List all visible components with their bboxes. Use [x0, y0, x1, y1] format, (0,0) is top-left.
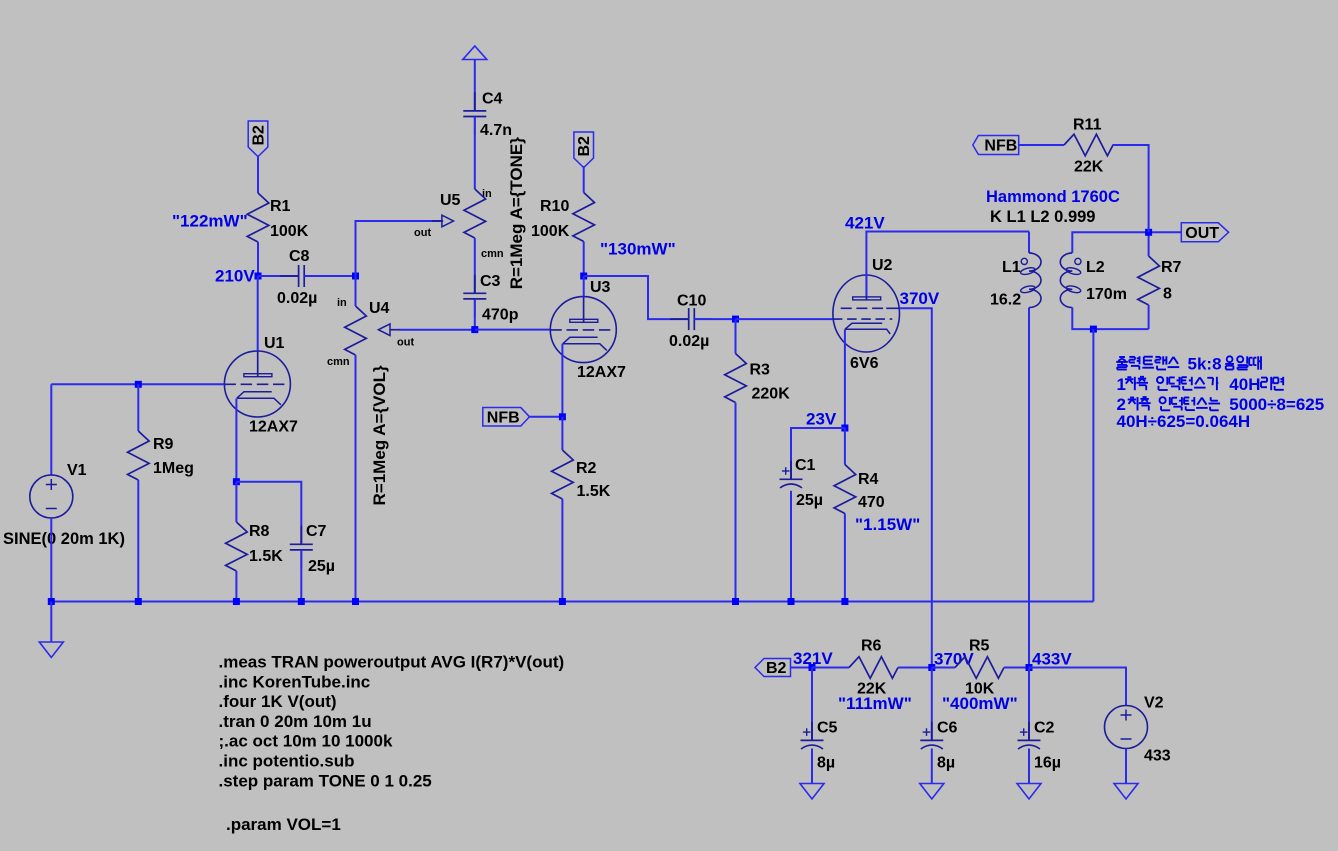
wiper arrow of U4 — [378, 324, 400, 336]
wire secondary bottom to ground rail — [1092, 329, 1094, 601]
node U3 cathode junction — [559, 413, 566, 420]
node 210V junction — [255, 273, 262, 280]
svg-text:1: 1 — [1117, 375, 1126, 394]
node rail junction C7 — [298, 598, 305, 605]
Korean glyph il (line 1) — [1237, 356, 1247, 369]
Korean glyph cheuk (line 3) — [1139, 397, 1151, 410]
wire C3 to grid node — [474, 299, 476, 330]
svg-text:R7: R7 — [1161, 259, 1182, 276]
node rail junction R4 — [841, 598, 848, 605]
resistor R9 — [128, 384, 150, 601]
svg-text:out: out — [397, 337, 414, 349]
Korean glyph seu (line 1) — [1168, 357, 1180, 367]
node 23V junction — [841, 425, 848, 432]
svg-text:470p: 470p — [482, 307, 519, 324]
svg-text:U3: U3 — [590, 279, 611, 296]
Korean glyph seu (line 2) — [1194, 377, 1206, 387]
capacitor C5 (polarized) — [801, 668, 824, 750]
svg-text:OUT: OUT — [1185, 225, 1219, 242]
svg-text:100K: 100K — [270, 223, 309, 240]
wire ground to C4 — [474, 60, 476, 111]
capacitor C7 — [290, 526, 313, 569]
Korean glyph ra (line 2) — [1261, 377, 1273, 390]
svg-text:B2: B2 — [576, 136, 593, 157]
wire C5 to ground — [811, 749, 813, 784]
svg-text:C10: C10 — [677, 293, 706, 310]
wire U4 node up to U5 wiper — [356, 221, 444, 276]
svg-text:25µ: 25µ — [308, 558, 335, 575]
capacitor C3 — [463, 275, 486, 318]
Korean glyph chul (line 1) — [1116, 357, 1128, 370]
svg-text:.tran 0 20m 10m 1u: .tran 0 20m 10m 1u — [219, 712, 372, 731]
svg-text:40H÷625=0.064H: 40H÷625=0.064H — [1117, 412, 1251, 431]
resistor R3 — [725, 319, 747, 601]
Korean glyph neun (line 3) — [1209, 397, 1221, 410]
wire C1 to rail — [790, 491, 792, 602]
wire U1 grid row — [51, 383, 224, 385]
wire B2 flag to R10 — [583, 166, 585, 193]
svg-text:8µ: 8µ — [817, 755, 835, 772]
svg-text:210V: 210V — [215, 267, 255, 286]
voltage source V1 — [30, 475, 73, 518]
wire NFB flag to cathode node — [530, 416, 563, 418]
svg-text:"111mW": "111mW" — [838, 694, 912, 713]
net flag NFB (at R2) — [483, 408, 530, 427]
wire B2 flag to R1 — [257, 156, 259, 193]
Korean glyph om (line 1) — [1225, 356, 1234, 369]
svg-text:R1: R1 — [270, 198, 291, 215]
Korean glyph teon (line 2) — [1182, 377, 1193, 390]
node U4-in junction — [352, 273, 359, 280]
wire L2 bottom to R7 — [1072, 308, 1148, 330]
node secondary-bottom junction — [1090, 326, 1097, 333]
node C10/R3 junction — [732, 316, 739, 323]
triode U3 12AX7 — [550, 297, 616, 363]
ground (C6) — [920, 784, 944, 800]
wire ground rail — [51, 601, 1093, 603]
svg-text:K L1 L2 0.999: K L1 L2 0.999 — [990, 208, 1095, 226]
node C3/U3-grid junction — [471, 326, 478, 333]
svg-text:in: in — [337, 297, 347, 309]
Korean glyph seu (line 3) — [1196, 398, 1208, 408]
node rail junction C1 — [788, 598, 795, 605]
resistor R5 — [932, 657, 1029, 679]
voltage source V2 — [1105, 706, 1148, 749]
Korean glyph deok (line 2) — [1169, 377, 1179, 390]
ground (above C4) — [463, 46, 487, 60]
svg-text:C7: C7 — [306, 523, 327, 540]
node U3 anode junction — [580, 273, 587, 280]
svg-text:.step param TONE 0 1 0.25: .step param TONE 0 1 0.25 — [219, 771, 432, 790]
wire U1 cathode down — [235, 399, 237, 482]
svg-text:100K: 100K — [531, 223, 570, 240]
svg-text:U2: U2 — [872, 257, 893, 274]
Korean glyph ttae (line 1) — [1249, 356, 1261, 369]
svg-text:8: 8 — [1163, 286, 1172, 303]
svg-text:C5: C5 — [817, 720, 838, 737]
wire U4 wiper to C3 node — [399, 329, 475, 331]
svg-text:22K: 22K — [1074, 159, 1104, 176]
wire anode node to C10 — [584, 276, 689, 319]
svg-text:R=1Meg A={TONE}: R=1Meg A={TONE} — [507, 137, 526, 289]
svg-text:470: 470 — [858, 494, 885, 511]
wire C4 to U5 — [474, 117, 476, 190]
capacitor C1 (polarized) — [780, 461, 803, 488]
net flag B2 (R10 supply) — [574, 132, 594, 168]
svg-text:4.7n: 4.7n — [480, 122, 512, 139]
svg-text:B2: B2 — [766, 660, 787, 677]
potentiometer U5 body — [464, 189, 486, 238]
svg-text:40H: 40H — [1229, 375, 1260, 394]
node rail junction U4 — [352, 598, 359, 605]
svg-text:C8: C8 — [289, 248, 310, 265]
wire 433V node to V2 — [1029, 668, 1126, 706]
svg-text:V2: V2 — [1144, 695, 1164, 712]
node 433V junction — [1026, 664, 1033, 671]
ground (V2) — [1114, 784, 1138, 800]
wire 421V corner to L1 — [1028, 232, 1030, 253]
svg-text:.four 1K V(out): .four 1K V(out) — [219, 692, 337, 711]
net flag OUT — [1181, 223, 1228, 242]
ground (C5) — [800, 784, 824, 800]
wire U4 node to U4 top — [355, 276, 357, 306]
capacitor C10 — [670, 308, 713, 330]
resistor R7 — [1138, 232, 1160, 329]
Korean glyph in (line 3) — [1160, 397, 1171, 410]
inductor L1 — [1020, 253, 1041, 308]
net flag B2 (R1 supply) — [248, 121, 268, 157]
resistor R6 — [812, 657, 898, 679]
wire C2 to ground — [1028, 749, 1030, 784]
wire U3 anode lead — [583, 276, 585, 297]
svg-text:"400mW": "400mW" — [942, 694, 1018, 713]
resistor R11 — [1019, 134, 1113, 156]
ground (C2) — [1017, 784, 1041, 800]
resistor R2 — [552, 417, 574, 602]
wiper arrow of U5 — [432, 215, 454, 227]
Korean glyph cha (line 2) — [1125, 377, 1136, 390]
node rail junction R2 — [559, 598, 566, 605]
wire B2 flag to 321V node — [791, 667, 813, 669]
svg-text:23V: 23V — [806, 410, 837, 429]
inductor L2 — [1060, 253, 1081, 308]
node OUT junction — [1145, 229, 1152, 236]
resistor R4 — [834, 428, 856, 602]
svg-text:NFB: NFB — [487, 409, 520, 426]
phase dot of L1 — [1021, 258, 1027, 264]
capacitor C4 — [463, 92, 486, 135]
svg-text:U5: U5 — [440, 192, 461, 209]
wire U2 anode to transformer — [866, 232, 1029, 297]
potentiometer U4 body — [345, 306, 367, 355]
wire R3 node to U2 grid — [736, 318, 833, 320]
node R9/grid junction — [135, 381, 142, 388]
wire 210V node to C8 — [258, 275, 299, 277]
node rail junction V1 — [48, 598, 55, 605]
svg-text:"130mW": "130mW" — [600, 240, 676, 259]
node U1 cathode junction — [233, 478, 240, 485]
svg-text:L1: L1 — [1002, 259, 1021, 276]
wire L2 top to OUT row — [1072, 232, 1181, 253]
svg-text:170m: 170m — [1086, 286, 1127, 303]
svg-text:12AX7: 12AX7 — [577, 364, 626, 381]
svg-text:V1: V1 — [67, 462, 87, 479]
svg-text:R3: R3 — [750, 362, 771, 379]
svg-text:0.02µ: 0.02µ — [277, 290, 317, 307]
svg-text:.inc potentio.sub: .inc potentio.sub — [219, 752, 355, 771]
net flag B2 (supply) — [755, 659, 791, 677]
Korean glyph myeon (line 2) — [1273, 377, 1284, 390]
wire V1 top to grid row — [50, 384, 52, 475]
svg-text:16µ: 16µ — [1034, 755, 1061, 772]
svg-text:U4: U4 — [369, 300, 390, 317]
Korean glyph raen (line 1) — [1155, 356, 1166, 369]
Korean glyph in (line 2) — [1157, 377, 1168, 390]
svg-text:8µ: 8µ — [937, 755, 955, 772]
wire U2 screen to 370V drop — [900, 308, 932, 667]
wire U5 to C3 — [474, 238, 476, 293]
svg-text:C1: C1 — [795, 457, 816, 474]
svg-text:R6: R6 — [861, 638, 882, 655]
svg-text:0.02µ: 0.02µ — [669, 333, 709, 350]
svg-text:U1: U1 — [264, 335, 285, 352]
node rail junction R8 — [233, 598, 240, 605]
capacitor C2 (polarized) — [1018, 668, 1041, 750]
svg-text:cmn: cmn — [481, 248, 504, 260]
svg-text:cmn: cmn — [327, 356, 350, 368]
Korean glyph ga (line 2) — [1207, 377, 1218, 390]
svg-text:1Meg: 1Meg — [153, 460, 194, 477]
wire R6 to 370V node — [898, 667, 932, 669]
svg-text:Hammond 1760C: Hammond 1760C — [986, 188, 1120, 206]
svg-text:B2: B2 — [250, 125, 267, 146]
wire C8 to U4 top node — [304, 275, 355, 277]
capacitor C6 (polarized) — [920, 668, 943, 750]
wire 23V node to C1 — [791, 428, 845, 479]
wire U1 anode to 210V node — [257, 276, 259, 351]
svg-text:;.ac oct 10m 10 1000k: ;.ac oct 10m 10 1000k — [219, 732, 393, 751]
svg-text:R11: R11 — [1073, 117, 1102, 134]
svg-text:1.5K: 1.5K — [577, 483, 611, 500]
Korean glyph cha (line 3) — [1128, 397, 1139, 410]
wire U2 cathode down to 23V — [844, 330, 846, 429]
node 370V junction — [928, 664, 935, 671]
svg-text:12AX7: 12AX7 — [249, 419, 298, 436]
svg-text:L2: L2 — [1086, 259, 1105, 276]
wire C6 to ground — [931, 749, 933, 784]
pentode U2 6V6 — [833, 275, 900, 352]
wire V1 bottom to rail — [50, 518, 52, 602]
Korean glyph teu (line 1) — [1142, 357, 1154, 368]
svg-text:R5: R5 — [969, 638, 990, 655]
wire U3 cathode down — [561, 344, 563, 417]
Korean glyph ryeok (line 1) — [1129, 356, 1139, 369]
triode U1 12AX7 — [224, 351, 290, 417]
svg-text:6V6: 6V6 — [850, 355, 879, 372]
svg-text:421V: 421V — [845, 214, 885, 233]
wire grid node to U3 grid — [475, 329, 551, 331]
resistor R8 — [226, 482, 248, 602]
svg-text:25µ: 25µ — [796, 492, 823, 509]
svg-text:R2: R2 — [576, 460, 597, 477]
svg-text:16.2: 16.2 — [990, 292, 1021, 309]
wire C10 to R3 node — [694, 318, 735, 320]
wire L1 bottom down to 433V node — [1028, 308, 1030, 668]
phase dot of L2 — [1075, 258, 1081, 264]
svg-text:C4: C4 — [482, 91, 503, 108]
net flag NFB (at R11) — [973, 136, 1019, 155]
svg-text:370V: 370V — [900, 289, 940, 308]
ground (main, lower left) — [39, 602, 63, 658]
node rail junction R3 — [732, 598, 739, 605]
svg-text:"1.15W": "1.15W" — [855, 515, 920, 534]
svg-text:220K: 220K — [752, 386, 791, 403]
wire R11 to OUT node — [1113, 145, 1149, 232]
svg-text:.inc KorenTube.inc: .inc KorenTube.inc — [219, 672, 371, 691]
resistor R10 — [573, 193, 595, 277]
svg-text:433: 433 — [1144, 748, 1171, 765]
svg-text:5k:8: 5k:8 — [1188, 354, 1222, 373]
Korean glyph deok (line 3) — [1172, 397, 1182, 410]
svg-text:R=1Meg A={VOL}: R=1Meg A={VOL} — [370, 365, 389, 506]
svg-text:R9: R9 — [153, 436, 174, 453]
wire cathode node to C7 — [236, 482, 301, 545]
Korean glyph cheuk (line 2) — [1136, 377, 1148, 390]
svg-text:R10: R10 — [540, 198, 569, 215]
svg-text:433V: 433V — [1032, 650, 1072, 669]
svg-text:1.5K: 1.5K — [249, 548, 283, 565]
svg-text:C6: C6 — [937, 720, 958, 737]
svg-text:C2: C2 — [1034, 720, 1055, 737]
node 321V junction — [809, 664, 816, 671]
svg-text:R4: R4 — [858, 471, 879, 488]
resistor R1 — [247, 193, 269, 276]
svg-text:NFB: NFB — [984, 137, 1017, 154]
wire V2 to ground — [1125, 749, 1127, 784]
svg-text:"122mW": "122mW" — [172, 212, 248, 231]
Korean glyph teon (line 3) — [1184, 397, 1195, 410]
directive text block (.meas etc.) — [219, 653, 565, 791]
wire C7 to rail — [300, 550, 302, 602]
svg-text:out: out — [414, 227, 431, 239]
svg-text:C3: C3 — [480, 273, 501, 290]
wire U4 bottom to ground rail — [355, 355, 357, 602]
capacitor C8 — [280, 265, 323, 287]
svg-text:.meas TRAN poweroutput AVG I(R: .meas TRAN poweroutput AVG I(R7)*V(out) — [219, 653, 565, 672]
svg-text:R8: R8 — [249, 523, 270, 540]
svg-text:.param VOL=1: .param VOL=1 — [226, 815, 341, 834]
node rail junction R9 — [135, 598, 142, 605]
svg-text:SINE(0 20m 1K): SINE(0 20m 1K) — [3, 530, 125, 548]
